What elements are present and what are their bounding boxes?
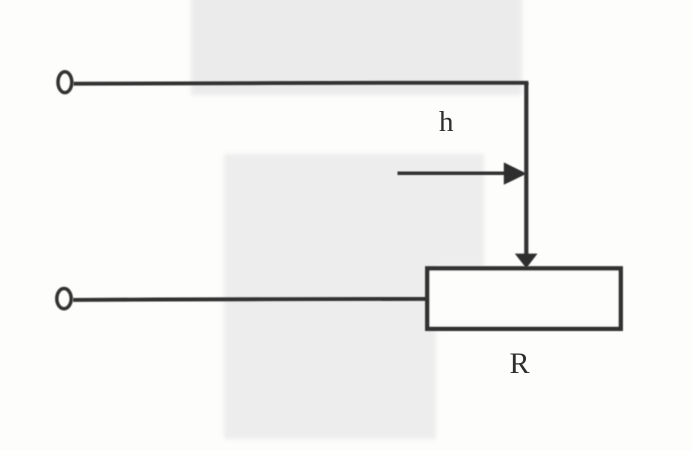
resistor R	[427, 268, 620, 328]
wire	[524, 83, 528, 256]
terminal T1	[58, 72, 72, 93]
svg-text:R: R	[510, 347, 530, 380]
svg-text:h: h	[439, 106, 454, 138]
wire	[74, 81, 529, 86]
arrow indicating tap position h	[398, 162, 527, 184]
wire	[73, 299, 427, 300]
wiper arrowhead	[515, 254, 538, 269]
terminal T2	[57, 289, 71, 309]
